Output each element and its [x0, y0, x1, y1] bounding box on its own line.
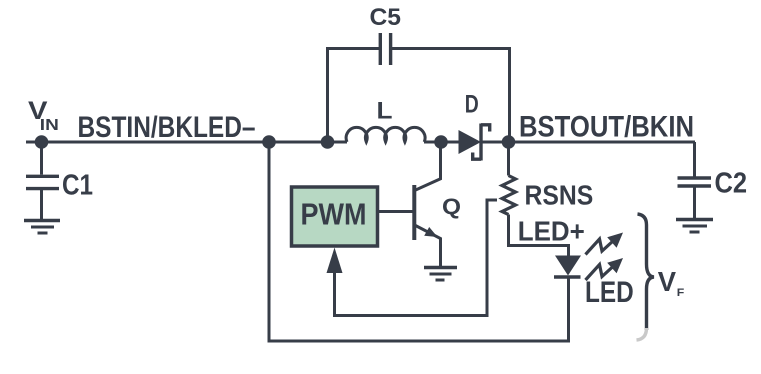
svg-text:F: F [677, 287, 685, 299]
svg-text:C5: C5 [370, 4, 402, 31]
svg-text:PWM: PWM [301, 198, 367, 232]
svg-text:Q: Q [442, 194, 461, 219]
svg-text:V: V [658, 266, 677, 297]
svg-text:BSTOUT/BKIN: BSTOUT/BKIN [519, 111, 694, 144]
svg-text:LED: LED [585, 276, 634, 309]
svg-text:L: L [377, 98, 393, 125]
svg-text:C2: C2 [715, 168, 748, 200]
svg-text:IN: IN [40, 117, 59, 134]
svg-text:RSNS: RSNS [525, 180, 594, 211]
svg-text:BSTIN/BKLED–: BSTIN/BKLED– [78, 111, 256, 144]
svg-text:LED+: LED+ [518, 216, 585, 247]
svg-text:C1: C1 [62, 170, 93, 202]
svg-text:D: D [465, 91, 479, 119]
